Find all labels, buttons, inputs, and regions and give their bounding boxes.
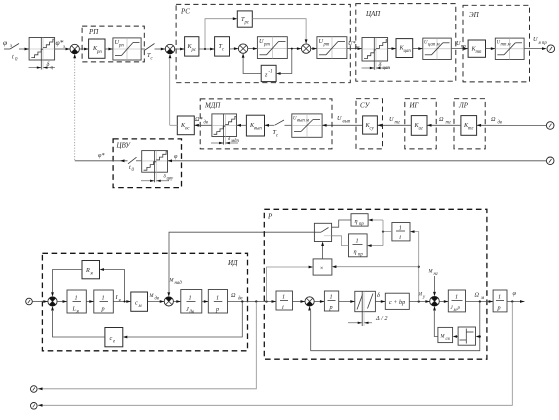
dimension delta_mdp under Q4: [211, 137, 239, 144]
wire Q2 to K_tsap: [388, 47, 396, 50]
wire tap down to z-1: [276, 48, 293, 75]
wire 1/J to 1/p: [202, 300, 209, 303]
block K_vyp: [246, 115, 264, 136]
svg-text:p: p: [329, 304, 333, 311]
block 1/p (twist): [324, 291, 338, 311]
svg-text:η: η: [354, 249, 357, 256]
svg-text:×: ×: [320, 265, 324, 272]
wire K_rp to U_rp: [105, 48, 113, 51]
dashed box RS (speed regulator): [176, 4, 350, 82]
wire U_tsap to K_tp: [451, 47, 468, 50]
wire switch to K_vyp: [265, 124, 275, 127]
summer S2: [165, 44, 174, 58]
summer S7: [305, 297, 314, 311]
node phi label at TsVU input: [174, 153, 178, 160]
node Omega_dv label: [491, 116, 502, 126]
wire S1 to K_rp: [79, 48, 88, 51]
node phi* label: [98, 152, 105, 159]
wire tap up to multiplier input: [267, 266, 314, 302]
saturation block U_tsap m: [423, 38, 452, 59]
svg-text:м: м: [453, 308, 457, 313]
svg-text:t: t: [12, 54, 14, 61]
node U_vyp label: [337, 115, 351, 125]
block 1/i (lower): [276, 291, 293, 311]
svg-text:ЦВУ: ЦВУ: [116, 142, 132, 150]
svg-text:вып: вып: [343, 120, 351, 125]
dashed box TsAP (DAC): [356, 4, 456, 82]
node M_dv label: [149, 294, 160, 302]
svg-text:δ: δ: [377, 292, 380, 299]
svg-text:вып м: вып м: [297, 119, 309, 124]
dashed box IG: [405, 99, 436, 149]
svg-text:Δ / 2: Δ / 2: [375, 315, 387, 322]
block 1/J_dv: [181, 290, 202, 316]
block 1/p output integrator: [493, 290, 507, 312]
svg-text:иг: иг: [419, 127, 423, 132]
svg-text:цап м: цап м: [428, 43, 440, 48]
svg-text:p: p: [101, 306, 105, 313]
wire M_u tap up to 1/i upper: [410, 230, 420, 301]
block 1/eta_pr: [349, 234, 368, 258]
wire c+bp to summer S8 with M_u tap: [409, 300, 430, 303]
node phi*_z label: [56, 38, 66, 50]
terminal 1 output U_ya: [547, 45, 555, 53]
block K_tg: [461, 116, 477, 136]
terminal 6 output phi (bottom left): [31, 403, 38, 410]
wire K_tp to U_tp sat: [486, 47, 496, 50]
wire input to quantizer Q1: [19, 48, 29, 51]
saturation block U_rt A: [257, 37, 287, 59]
saturation block U_rp: [113, 38, 141, 60]
node U_ya pr output label: [533, 36, 547, 46]
wire S8 to 1/Jp: [439, 300, 448, 303]
quantizer block Q2 (delta_tsap): [362, 38, 388, 70]
svg-text:-1: -1: [269, 70, 273, 75]
svg-text:1: 1: [399, 224, 402, 231]
svg-text:дв: дв: [190, 310, 195, 315]
summer S5: [48, 292, 57, 310]
svg-text:дв: дв: [204, 121, 209, 126]
wire multiplier up to selector: [321, 242, 324, 259]
switch t0 at input: [4, 44, 19, 63]
wire z-1 to S3 bottom: [243, 58, 261, 74]
switch t0 in TsVU: [128, 157, 142, 173]
block K_os: [177, 116, 194, 135]
wire 1/i upper to eta blocks: [367, 219, 392, 247]
block T_rs: [237, 11, 252, 27]
block 1/p (speed): [208, 290, 227, 314]
wire K_su to U_vyp sat: [322, 124, 363, 127]
svg-text:p: p: [497, 305, 501, 312]
svg-text:φ: φ: [513, 290, 517, 297]
svg-text:РС: РС: [180, 8, 190, 16]
dimension delta_tsvu under Q3: [141, 175, 174, 183]
wire c_e feedback tap down and left: [123, 302, 243, 339]
block 1/J_m p: [448, 290, 465, 313]
node M_ng label: [428, 270, 438, 278]
quantizer block Q3 (delta_tsvu): [142, 151, 168, 183]
svg-text:рт: рт: [263, 43, 270, 48]
wire M_ng from above into S8: [434, 276, 436, 292]
wire K_ig to K_su: [377, 124, 411, 127]
summer S8: [430, 292, 440, 311]
svg-text:я пр: я пр: [538, 41, 548, 46]
node Omega*_dv label: [195, 116, 208, 126]
node U_pr label: [456, 40, 466, 50]
wire U_rt A to summer S4 with tap to z-1: [287, 47, 301, 50]
node I_ya label: [115, 294, 122, 304]
block K_su: [363, 116, 378, 134]
svg-text:1: 1: [330, 294, 333, 301]
svg-text:пр: пр: [359, 222, 364, 227]
block c_m: [131, 292, 148, 311]
svg-text:Ω: Ω: [491, 116, 496, 123]
wire R_ya to S5 top: [53, 270, 83, 293]
svg-text:рп: рп: [118, 44, 124, 49]
block 1/p (armature): [94, 290, 114, 313]
dimension delta_tsap under Q2: [362, 62, 391, 72]
backlash block delta: [355, 291, 380, 326]
wire S2 to K_rs: [175, 48, 185, 51]
dashed box MDP: [200, 99, 332, 149]
dashed box R (reducer): [264, 209, 487, 359]
svg-text:м: м: [480, 296, 484, 301]
block 1/L_ya: [67, 290, 86, 315]
svg-text:рт: рт: [323, 43, 330, 48]
svg-text:U: U: [337, 115, 342, 122]
svg-text:Ω: Ω: [439, 116, 444, 123]
svg-text:Ω*: Ω*: [195, 116, 203, 123]
svg-text:i: i: [399, 234, 401, 241]
wire 1/p to backlash: [339, 300, 355, 303]
svg-text:рс: рс: [244, 21, 250, 26]
wire S7 to 1/p: [314, 300, 324, 303]
svg-text:1: 1: [356, 238, 359, 245]
wire M_sv up into S8 bottom: [434, 311, 438, 337]
wire 1/p to c_m with tap to R_ya: [113, 300, 131, 303]
svg-text:φ: φ: [174, 153, 178, 160]
svg-text:R: R: [85, 267, 90, 274]
svg-text:1: 1: [75, 295, 78, 302]
svg-text:цап: цап: [383, 66, 391, 71]
wire c_e to S5 bottom: [53, 311, 105, 337]
wire T_rs to summer S4 from top: [252, 19, 307, 44]
svg-text:ЦАП: ЦАП: [365, 10, 381, 18]
multiplier block x: [313, 259, 332, 275]
block eta_pr: [351, 214, 368, 227]
svg-text:z: z: [264, 72, 268, 79]
dimension delta_c under Q1: [29, 61, 56, 71]
block 1/i (upper): [392, 223, 410, 241]
block K_tp: [468, 40, 485, 57]
block c_e: [105, 328, 123, 347]
wire into relay block: [476, 335, 481, 338]
svg-text:1: 1: [498, 294, 501, 301]
node Omega_m label: [475, 292, 485, 302]
svg-text:1: 1: [282, 294, 285, 301]
dashed box RP (position regulator): [82, 26, 144, 62]
wire Omega_m tap down to relay and position feedback: [311, 302, 481, 351]
dashed box TsVU: [113, 139, 181, 188]
wire Omega_dv tap down to terminal row E: [38, 302, 256, 391]
svg-text:ИД: ИД: [227, 259, 238, 267]
summer S1: [70, 44, 79, 58]
svg-text:дв: дв: [155, 297, 160, 302]
switch T_c in MDP: [273, 120, 292, 139]
terminal 3 input phi (right): [546, 157, 554, 165]
summer S6: [164, 292, 173, 306]
wire Q1 to summer S1: [55, 48, 70, 51]
wire U_rt B to quantizer Q2: [347, 47, 362, 50]
block c+bp: [385, 293, 409, 309]
svg-text:U: U: [389, 116, 394, 123]
node phi_z input label: [3, 38, 12, 49]
relay block (sign): [458, 327, 475, 345]
block K_rs: [185, 37, 199, 56]
node U*_rs label: [348, 40, 360, 51]
dashed box SU: [356, 99, 383, 149]
svg-text:ЛР: ЛР: [458, 102, 469, 110]
node M_u label: [417, 293, 426, 301]
dimension Delta/2 under backlash: [348, 315, 387, 324]
svg-text:МДП: МДП: [204, 102, 221, 110]
wire 1/Jp to 1/p output with tap: [466, 300, 494, 303]
svg-text:тп м: тп м: [501, 43, 511, 48]
wire terminal to K_pr: [477, 124, 547, 127]
terminal 4 input U_ya (bottom left): [26, 298, 33, 305]
summer S4: [301, 44, 310, 53]
svg-text:пр: пр: [358, 253, 363, 258]
wire T_c to summer S3: [230, 47, 239, 50]
svg-text:тг: тг: [446, 121, 451, 126]
wire M_u branch to multiplier right input: [332, 265, 419, 268]
block K_tsap: [396, 39, 413, 58]
wire M_nag from selector down into S6: [169, 232, 314, 292]
terminal 2 input Omega_dv (top right): [546, 122, 554, 130]
wire backlash to c+bp: [375, 300, 385, 303]
wire Q4 to K_os: [194, 124, 212, 127]
svg-text:1: 1: [216, 295, 219, 302]
svg-text:φ: φ: [3, 38, 7, 47]
svg-text:1: 1: [189, 295, 192, 302]
node Omega_dv label (bottom): [231, 292, 243, 302]
wire K_tg to K_ig: [427, 124, 461, 127]
block K_ig: [411, 116, 427, 136]
wire feedback phi* up into S1 (dotted): [74, 58, 76, 161]
svg-text:1: 1: [455, 294, 458, 301]
svg-text:δ: δ: [379, 62, 382, 69]
svg-text:тп: тп: [476, 50, 482, 55]
wire K_os feedback up into S2: [169, 58, 171, 125]
svg-text:Ω: Ω: [231, 292, 236, 299]
wire 1/L to 1/p: [86, 300, 94, 303]
wire phi from terminal to TsVU quantizer: [168, 159, 547, 162]
dashed box PR: [454, 99, 485, 149]
svg-text:мдп: мдп: [230, 139, 239, 144]
wire terminal to summer S5: [32, 300, 48, 303]
svg-text:1: 1: [102, 295, 105, 302]
svg-text:тг: тг: [468, 127, 473, 132]
svg-text:ИГ: ИГ: [409, 102, 420, 110]
wire U_tp to output terminal: [524, 47, 546, 50]
wire 1/i to summer S7: [293, 300, 306, 303]
wire 1/eta_pr to selector bottom: [332, 236, 349, 246]
wire relay to M_sv: [453, 335, 459, 338]
block z^-1: [261, 65, 276, 81]
terminal 5 output Omega_dv (bottom left): [31, 386, 38, 393]
svg-text:η: η: [355, 218, 358, 225]
svg-text:Ω: Ω: [475, 292, 480, 299]
svg-text:c + bp: c + bp: [389, 299, 405, 306]
wire S3 to U_rt sat A: [248, 47, 258, 50]
dashed box ID (motor): [42, 253, 247, 350]
svg-text:цап: цап: [404, 49, 412, 54]
saturation block U_tp m: [495, 38, 524, 59]
dashed box EP (power converter): [463, 5, 530, 82]
wire tap up to R_ya: [100, 268, 126, 302]
wire tap up to T_rs: [204, 17, 237, 50]
block K_rp: [89, 39, 105, 58]
wire Omega_dv to 1/i with taps: [228, 300, 277, 303]
selector block: [314, 223, 331, 241]
switch T_c after RP: [141, 44, 154, 62]
svg-text:i: i: [282, 304, 284, 311]
summer S3: [238, 44, 247, 58]
node U_tg label: [389, 116, 400, 126]
wire K_vyp to quantizer Q4: [237, 124, 247, 127]
svg-text:РП: РП: [88, 28, 99, 36]
wire K_os output to S2 riser: [170, 124, 178, 126]
wire eta_pr to selector top: [332, 220, 351, 227]
svg-text:тг: тг: [395, 121, 400, 126]
block M_sv: [438, 327, 453, 342]
quantizer block Q1 (delta_c): [29, 38, 54, 70]
svg-text:вып: вып: [254, 127, 262, 132]
wire phi tap down to terminal row F: [38, 302, 512, 407]
svg-text:p: p: [457, 306, 461, 311]
block R_ya: [82, 261, 100, 279]
svg-text:цву: цву: [167, 177, 174, 182]
svg-text:св: св: [446, 337, 450, 342]
svg-text:над: над: [175, 281, 183, 286]
svg-text:p: p: [215, 306, 219, 313]
svg-text:δ: δ: [47, 61, 50, 68]
svg-text:СУ: СУ: [360, 102, 371, 110]
saturation block U_rt B: [317, 37, 347, 59]
wire S6 to 1/J block: [173, 300, 180, 303]
node Omega_tg label: [439, 116, 451, 126]
svg-text:Р: Р: [267, 213, 273, 221]
wire switch to summer S2: [155, 48, 166, 51]
wire TsVU output phi* to S1 riser: [75, 159, 128, 162]
svg-text:рп: рп: [96, 50, 102, 55]
wire K_tsap to U_tsap sat: [413, 47, 423, 50]
wire 1/p to phi arrow: [507, 300, 525, 303]
node phi output label: [513, 290, 517, 297]
svg-text:φ*: φ*: [98, 152, 105, 159]
svg-text:ЭП: ЭП: [469, 11, 480, 19]
svg-text:дв: дв: [498, 121, 503, 126]
saturation block U_vyp m: [292, 114, 322, 137]
wire S4 to U_rt B: [311, 47, 317, 50]
wire S5 to 1/L block: [57, 300, 67, 303]
svg-text:U: U: [533, 36, 538, 43]
svg-text:м: м: [138, 304, 142, 309]
block T_c integrator: [215, 37, 230, 56]
node M_nag label: [169, 279, 183, 287]
wire c_m to summer S6: [148, 300, 165, 303]
quantizer block Q4 (delta_mdp): [212, 114, 237, 145]
svg-text:рс: рс: [191, 48, 197, 53]
wire K_rs to T_c block with tap to T_rs: [199, 48, 215, 51]
